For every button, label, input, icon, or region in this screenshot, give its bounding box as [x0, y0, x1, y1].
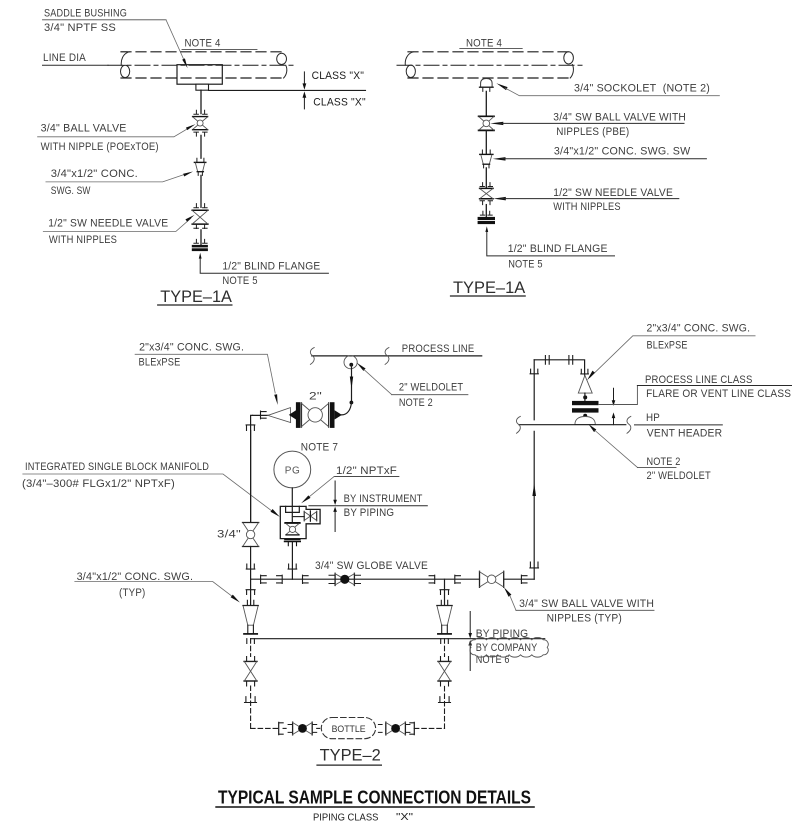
- svg-text:HP: HP: [646, 412, 660, 424]
- flanged joint (class break): [572, 401, 599, 413]
- title underline: [215, 806, 535, 808]
- line break squiggle: [516, 416, 520, 433]
- manifold needle valve: [304, 511, 317, 521]
- sw coupling below junction: [246, 590, 255, 595]
- svg-text:NOTE 2: NOTE 2: [399, 397, 433, 409]
- dot: [583, 414, 587, 418]
- leader + label: 3/4" SW BALL VALVE WITH NIPPLES (PBE): [490, 112, 686, 138]
- pipe nipple: [200, 135, 202, 158]
- svg-text:BY PIPING: BY PIPING: [344, 507, 395, 519]
- manifold globe valve: [285, 523, 299, 535]
- leader + label: 3/4"x1/2" CONC. SWG. SW: [493, 145, 707, 160]
- sw coupling: [581, 369, 589, 374]
- sample line stem: [250, 431, 252, 523]
- svg-text:NIPPLES (TYP): NIPPLES (TYP): [547, 613, 622, 625]
- label: LINE DIA: [43, 52, 109, 65]
- swage 3/4"x1/2" (cone): [437, 606, 452, 626]
- top run to vent connection: [534, 360, 584, 376]
- label: INTEGRATED SINGLE BLOCK MANIFOLD: [22, 461, 280, 517]
- sw coupling: [455, 575, 461, 583]
- svg-text:WITH NIPPLES: WITH NIPPLES: [553, 201, 620, 213]
- needle valve 1/2": [480, 188, 493, 198]
- leader + label: 3/4" SOCKOLET (NOTE 2): [496, 82, 719, 95]
- svg-text:3/4": 3/4": [217, 529, 241, 541]
- stem pipe from nozzle: [200, 90, 202, 113]
- swage marks: [441, 600, 447, 605]
- pipe from elbow to swage: [253, 414, 269, 416]
- pipe nipple: [200, 175, 202, 207]
- saddle bushing nozzle: [196, 84, 209, 90]
- saddle bushing body: [177, 65, 222, 85]
- right lower stem (dashed): [441, 639, 449, 662]
- line break squiggle: [385, 348, 389, 365]
- dash: [317, 727, 321, 729]
- swage 2"x3/4": [268, 408, 291, 423]
- class break line: [209, 89, 366, 91]
- dashes + elbow right: [414, 681, 450, 728]
- line break squiggle: [627, 416, 631, 433]
- weldolet 2" (vent): [575, 417, 595, 425]
- sw coupling pair: [261, 575, 267, 583]
- svg-text:1/2" SW NEEDLE VALVE: 1/2" SW NEEDLE VALVE: [553, 187, 673, 199]
- flow arrow up: [532, 483, 536, 496]
- svg-text:LINE DIA: LINE DIA: [43, 52, 87, 64]
- elbow down to sample line: [251, 415, 253, 522]
- svg-text:1/2" SW NEEDLE VALVE: 1/2" SW NEEDLE VALVE: [48, 217, 168, 229]
- svg-text:FLARE OR VENT LINE CLASS: FLARE OR VENT LINE CLASS: [646, 388, 791, 400]
- svg-text:1/2" BLIND FLANGE: 1/2" BLIND FLANGE: [222, 260, 320, 272]
- swage marks: [247, 600, 253, 605]
- svg-text:2" WELDOLET: 2" WELDOLET: [399, 381, 464, 393]
- label: 3/4" BALL VALVE WITH NIPPLE (POExTOE): [38, 123, 196, 153]
- sw coupling pair: [277, 575, 283, 583]
- conc swage 3/4"x1/2": [194, 158, 205, 175]
- title TYPE-1A (left): [158, 287, 233, 306]
- label: SADDLE BUSHING 3/4" NPTF SS: [43, 8, 167, 35]
- svg-text:NIPPLES (PBE): NIPPLES (PBE): [556, 126, 629, 138]
- svg-text:NOTE 4: NOTE 4: [185, 37, 221, 49]
- svg-text:PIPING CLASS: PIPING CLASS: [313, 811, 378, 823]
- svg-text:BLExPSE: BLExPSE: [139, 357, 181, 369]
- sw coupling above junction: [246, 564, 255, 569]
- svg-text:NOTE 5: NOTE 5: [222, 275, 257, 287]
- line break squiggle: [310, 348, 314, 365]
- pipe nipple: [485, 168, 487, 188]
- svg-text:3/4" SW BALL VALVE WITH: 3/4" SW BALL VALVE WITH: [519, 598, 654, 610]
- sw marks above blind flange: [194, 239, 207, 243]
- label: NOTE 4: [460, 38, 522, 50]
- svg-text:3/4" SW GLOBE VALVE: 3/4" SW GLOBE VALVE: [315, 560, 428, 572]
- title TYPE-2: [317, 745, 381, 765]
- label: 3/4"x1/2" CONC. SWG. SW: [46, 168, 193, 197]
- base flange: [438, 633, 451, 635]
- svg-text:WITH NIPPLES: WITH NIPPLES: [49, 234, 117, 246]
- dimension arrows BY PIPING/BY COMPANY: [468, 612, 472, 671]
- svg-text:WITH NIPPLE (POExTOE): WITH NIPPLE (POExTOE): [41, 141, 159, 153]
- leader arrow to blind flange: [199, 253, 329, 273]
- sw marks below needle valve: [480, 201, 492, 205]
- needle valve (right, bottom loop): [438, 661, 451, 681]
- revision cloud: [470, 637, 548, 657]
- svg-text:BY INSTRUMENT: BY INSTRUMENT: [344, 493, 423, 505]
- svg-text:2"x3/4" CONC. SWG.: 2"x3/4" CONC. SWG.: [139, 341, 244, 353]
- svg-text:2": 2": [309, 391, 322, 403]
- process line: [312, 355, 482, 357]
- svg-text:TYPE–1A: TYPE–1A: [453, 278, 526, 297]
- svg-text:3/4" BALL VALVE: 3/4" BALL VALVE: [41, 123, 127, 135]
- svg-text:(3/4"–300# FLGx1/2" NPTxF): (3/4"–300# FLGx1/2" NPTxF): [22, 478, 175, 490]
- leader to saddle bushing: [166, 20, 188, 69]
- leader arrow to blind flange: [485, 226, 614, 256]
- left branch down: [243, 579, 258, 634]
- dashes + elbow to bottle line: [245, 681, 279, 728]
- manifold outlet flange: [285, 540, 301, 546]
- label: NOTE 4: [182, 37, 257, 49]
- label: HP VENT HEADER: [635, 412, 723, 439]
- svg-text:NOTE 5: NOTE 5: [508, 259, 543, 271]
- svg-text:CLASS "X": CLASS "X": [312, 70, 365, 82]
- svg-text:3/4"x1/2" CONC. SWG.: 3/4"x1/2" CONC. SWG.: [77, 571, 194, 583]
- dimension arrows (line class break): [612, 388, 616, 424]
- label: 1/2" BLIND FLANGE NOTE 5: [222, 260, 320, 287]
- sw bracket: [410, 722, 414, 734]
- svg-text:TYPICAL SAMPLE CONNECTION DETA: TYPICAL SAMPLE CONNECTION DETAILS: [218, 786, 531, 807]
- label: 1/2" SW NEEDLE VALVE WITH NIPPLES: [43, 215, 194, 246]
- ball valve 3/4": [193, 117, 208, 130]
- sw coupling: [261, 411, 267, 419]
- sw union marks: [545, 356, 572, 365]
- dot: [583, 395, 587, 399]
- pipe nipple: [485, 91, 487, 116]
- pipe (process header, hidden lines): [108, 52, 293, 78]
- svg-text:NOTE 4: NOTE 4: [466, 38, 502, 50]
- sw marks below needle valve: [194, 224, 207, 228]
- svg-text:PG: PG: [285, 465, 300, 476]
- sw coupling near top: [530, 369, 538, 374]
- svg-text:SADDLE BUSHING: SADDLE BUSHING: [44, 8, 127, 20]
- svg-text:(TYP): (TYP): [119, 587, 146, 599]
- swage 2"x3/4" (vent): [578, 375, 592, 393]
- needle valve 1/2": [192, 210, 208, 224]
- right branch down: [437, 579, 452, 634]
- sw coupling: [429, 575, 435, 583]
- sample bottle: [321, 718, 375, 739]
- svg-text:VENT HEADER: VENT HEADER: [647, 427, 723, 439]
- needle valve (left, bottom loop): [244, 661, 257, 681]
- dash: [283, 727, 288, 729]
- swage neck: [248, 625, 254, 633]
- svg-text:NOTE 6: NOTE 6: [476, 654, 510, 666]
- pipe end arcs left: [405, 52, 415, 78]
- globe valve 3/4": [329, 573, 361, 585]
- branch stem: [250, 579, 252, 605]
- sw nipple marks above ball valve: [194, 110, 207, 114]
- 2" flanged ball valve: [289, 402, 342, 428]
- pipe end arcs right: [277, 53, 287, 78]
- manifold outlet stem: [291, 542, 293, 579]
- svg-text:1/2" BLIND FLANGE: 1/2" BLIND FLANGE: [508, 243, 608, 255]
- stem through notch: [291, 506, 293, 522]
- svg-text:3/4" SW BALL VALVE WITH: 3/4" SW BALL VALVE WITH: [553, 112, 686, 124]
- drop pipe with flow arrow: [342, 365, 354, 415]
- label: 2"x3/4" CONC. SWG. BLExPSE (left): [135, 341, 278, 405]
- svg-text:TYPE–1A: TYPE–1A: [160, 287, 232, 306]
- pipe nipple: [485, 130, 487, 154]
- sw bracket: [279, 722, 283, 734]
- lower header line: [251, 638, 545, 640]
- svg-text:BY COMPANY: BY COMPANY: [476, 642, 538, 654]
- weldolet 2": [344, 356, 357, 369]
- sw marks above blind flange: [480, 211, 492, 215]
- label: 1/2" BLIND FLANGE NOTE 5: [508, 243, 608, 270]
- svg-text:BOTTLE: BOTTLE: [332, 724, 366, 735]
- svg-text:3/4"x1/2" CONC. SWG. SW: 3/4"x1/2" CONC. SWG. SW: [554, 145, 691, 157]
- blind flange 1/2": [478, 217, 495, 224]
- leader + label: 1/2" SW NEEDLE VALVE WITH NIPPLES: [493, 187, 678, 213]
- swage neck: [442, 625, 448, 633]
- conc swage 3/4"x1/2": [480, 150, 493, 168]
- svg-text:CLASS "X": CLASS "X": [313, 97, 366, 109]
- riser to vent header: [533, 360, 535, 579]
- sw ball valve 3/4": [479, 116, 494, 130]
- svg-text:1/2" NPTxF: 1/2" NPTxF: [336, 465, 397, 477]
- leader + label: 3/4" SW BALL VALVE WITH NIPPLES (TYP): [504, 587, 654, 625]
- left lower stem (dashed scope): [247, 639, 255, 662]
- label: PROCESS LINE CLASS / FLARE OR VENT LINE CLASS: [599, 374, 792, 405]
- gauge stem: [291, 488, 293, 523]
- svg-text:2"x3/4" CONC. SWG.: 2"x3/4" CONC. SWG.: [647, 322, 751, 334]
- pipe end arcs right: [564, 52, 574, 78]
- svg-text:BY PIPING: BY PIPING: [476, 628, 529, 640]
- svg-text:TYPE–2: TYPE–2: [320, 745, 381, 764]
- globe valve (bottle right): [378, 722, 410, 735]
- sockolet 3/4": [480, 79, 494, 92]
- label: BY PIPING / BY COMPANY / NOTE 6: [476, 628, 538, 666]
- pipe nipple: [200, 230, 202, 245]
- title TYPE-1A (right): [451, 278, 526, 297]
- main sample header: [251, 578, 535, 580]
- svg-text:SWG. SW: SWG. SW: [51, 185, 91, 197]
- svg-text:3/4"x1/2" CONC.: 3/4"x1/2" CONC.: [51, 168, 138, 180]
- label: BY INSTRUMENT / BY PIPING: [309, 481, 427, 532]
- pipe nipple: [485, 205, 487, 217]
- label: 1/2" NPTxF: [301, 465, 399, 503]
- svg-text:"X": "X": [396, 811, 413, 823]
- svg-text:BLExPSE: BLExPSE: [647, 340, 688, 352]
- branch stem: [444, 579, 446, 605]
- blind flange 1/2": [192, 245, 208, 251]
- pressure gauge PG: [274, 451, 311, 488]
- sw coupling: [303, 575, 309, 583]
- sw elbow coupling: [246, 425, 255, 431]
- manifold block outline: [280, 506, 320, 538]
- svg-text:PROCESS LINE: PROCESS LINE: [402, 343, 475, 355]
- sw marks above needle valve: [480, 183, 492, 187]
- sw elbow coupling: [530, 562, 539, 568]
- pipe end arcs left: [121, 52, 130, 78]
- vent header line: [519, 424, 626, 426]
- label: 2"x3/4" CONC. SWG. BLExPSE (right): [587, 322, 755, 380]
- svg-text:INTEGRATED SINGLE BLOCK MANIFO: INTEGRATED SINGLE BLOCK MANIFOLD: [25, 461, 209, 473]
- label: 3/4"x1/2" CONC. SWG. (TYP): [75, 571, 240, 603]
- stem to junction: [250, 547, 252, 580]
- branch to manifold needle: [292, 516, 304, 518]
- svg-text:NOTE 7: NOTE 7: [301, 442, 338, 454]
- sw coupling below junction: [440, 590, 449, 595]
- gauge port notch: [286, 506, 300, 512]
- base flange: [244, 633, 257, 635]
- junction dot: [349, 363, 353, 367]
- svg-text:NOTE 2: NOTE 2: [647, 456, 681, 468]
- sw coupling: [521, 575, 527, 583]
- svg-text:3/4" NPTF SS: 3/4" NPTF SS: [44, 22, 116, 34]
- dimension arrows class X: [303, 72, 307, 109]
- svg-text:PROCESS LINE CLASS: PROCESS LINE CLASS: [645, 374, 753, 386]
- label: NOTE 2 / 2" WELDOLET (vent): [589, 424, 712, 482]
- ball valve 3/4" (vertical): [243, 523, 259, 547]
- sw nipple marks below ball valve: [194, 132, 207, 136]
- pipe (header, hidden lines): [397, 52, 583, 78]
- svg-text:2" WELDOLET: 2" WELDOLET: [647, 470, 712, 482]
- ball valve 3/4" (horizontal): [480, 571, 504, 587]
- sw marks above needle valve: [194, 204, 207, 208]
- swage 3/4"x1/2" (cone): [243, 606, 258, 626]
- svg-text:3/4" SOCKOLET (NOTE 2): 3/4" SOCKOLET (NOTE 2): [574, 82, 710, 94]
- sw coupling above junction: [288, 564, 297, 569]
- stem: [584, 393, 586, 401]
- globe valve (bottle left): [288, 722, 317, 735]
- leader + label: 2" WELDOLET NOTE 2: [357, 363, 468, 410]
